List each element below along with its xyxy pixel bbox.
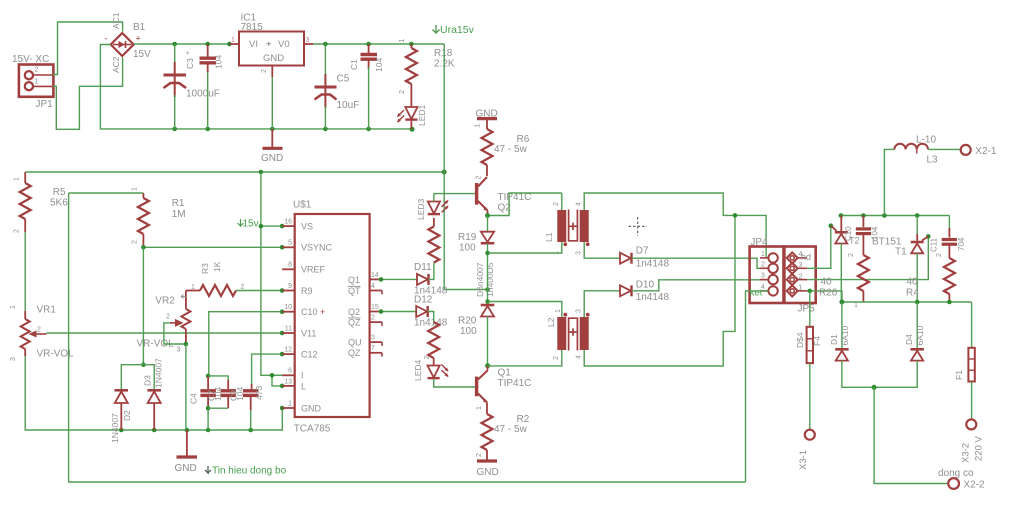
wire Q2 emitter to L1 pin2 xyxy=(488,193,562,216)
svg-text:473: 473 xyxy=(254,386,264,400)
ground symbol below IC1 xyxy=(261,129,283,164)
svg-text:1: 1 xyxy=(231,37,235,44)
svg-text:4: 4 xyxy=(576,355,583,359)
mini rail top y215.5 xyxy=(841,215,950,217)
svg-text:1: 1 xyxy=(10,305,17,309)
svg-text:1n400D5: 1n400D5 xyxy=(485,262,495,297)
pin 7 QZ xyxy=(348,345,382,358)
svg-text:1: 1 xyxy=(35,79,39,86)
wire VR2 bottom to gnd rail xyxy=(185,344,187,430)
svg-text:3: 3 xyxy=(799,262,803,269)
svg-text:JP5: JP5 xyxy=(798,304,816,315)
transistor Q1 TIP41C xyxy=(476,366,531,410)
svg-text:2: 2 xyxy=(132,240,139,244)
svg-text:F4: F4 xyxy=(812,336,822,346)
svg-text:1: 1 xyxy=(288,400,292,407)
snubber resistor R26 xyxy=(819,253,869,302)
svg-text:Ura15v: Ura15v xyxy=(440,24,475,36)
svg-text:hd: hd xyxy=(801,252,811,262)
wire to fuse F4 xyxy=(809,291,811,327)
svg-text:JP4: JP4 xyxy=(750,237,768,248)
diode D12 1n4148 xyxy=(414,295,448,329)
wire R3 to pin9 R9 xyxy=(236,290,282,292)
svg-text:100: 100 xyxy=(460,326,477,337)
svg-text:QT: QT xyxy=(348,286,361,296)
wire D5 to L1 pin1 junction xyxy=(487,244,489,290)
node dots 0V rail xyxy=(172,127,177,132)
IC U$1 TCA785 body xyxy=(293,200,370,435)
svg-text:VR1: VR1 xyxy=(37,305,57,316)
LED1 xyxy=(397,84,427,129)
pin 12 C12 xyxy=(282,347,317,360)
svg-text:QU: QU xyxy=(348,338,362,348)
wire +15v vertical to TCA pin16 and I/L pins xyxy=(261,172,282,375)
svg-text:15V- XC: 15V- XC xyxy=(12,54,49,65)
diode D7 1n4148 xyxy=(620,246,670,270)
wire rail right to F1 xyxy=(971,302,973,348)
LED4 xyxy=(413,356,449,382)
svg-text:L-10: L-10 xyxy=(916,135,936,146)
svg-text:1N4007: 1N4007 xyxy=(154,358,164,388)
svg-text:D1: D1 xyxy=(829,334,839,345)
svg-text:2: 2 xyxy=(261,69,268,73)
svg-text:QZ: QZ xyxy=(348,348,361,358)
wire LED3 to Q2 base xyxy=(434,194,476,202)
wire rail up to L3 xyxy=(884,149,894,215)
wire VR1 bottom to gnd rail xyxy=(25,356,282,430)
svg-text:C4: C4 xyxy=(189,393,199,404)
svg-text:1n4148: 1n4148 xyxy=(636,292,670,303)
wire R1 bottom to VSYNC pin5 xyxy=(143,246,282,248)
svg-text:15v: 15v xyxy=(243,219,259,230)
svg-text:1n4148: 1n4148 xyxy=(636,259,670,270)
wire L1 pin1 to D5-D6 node xyxy=(488,242,562,253)
svg-text:12: 12 xyxy=(284,347,292,354)
svg-text:dong co: dong co xyxy=(938,468,974,479)
svg-text:LED3: LED3 xyxy=(416,198,426,220)
pin 3 QU xyxy=(348,335,382,348)
svg-text:1: 1 xyxy=(132,187,139,191)
svg-text:C12: C12 xyxy=(301,350,318,360)
wire rail down to D1 xyxy=(841,302,843,348)
wire L1 pin2 riser xyxy=(561,193,563,210)
svg-text:1M: 1M xyxy=(172,209,186,220)
resistor above LED4 xyxy=(428,316,477,366)
svg-text:6A10: 6A10 xyxy=(840,325,850,345)
svg-text:1: 1 xyxy=(399,39,406,43)
svg-text:104: 104 xyxy=(235,387,245,401)
wire regulator GND down xyxy=(271,77,273,129)
svg-text:AC2: AC2 xyxy=(111,56,121,73)
pin 11 V11 xyxy=(282,325,316,338)
wire to D6 and L2 pin1 junction xyxy=(487,290,489,304)
wire L2 pin2 to Q1 collector node xyxy=(488,350,562,366)
ground symbol above R6 xyxy=(475,109,498,130)
svg-text:3: 3 xyxy=(576,251,583,255)
svg-text:R19: R19 xyxy=(458,232,477,243)
wire VR1 wiper to pin11 V11 xyxy=(47,332,283,334)
wire Q2 emitter down to D5 xyxy=(487,216,489,232)
transformer L2 xyxy=(546,309,590,360)
svg-text:14: 14 xyxy=(371,272,379,279)
svg-text:1N4007: 1N4007 xyxy=(110,413,120,443)
svg-text:R9: R9 xyxy=(301,286,313,296)
svg-text:VREF: VREF xyxy=(301,265,326,275)
svg-text:X2-1: X2-1 xyxy=(975,146,997,157)
svg-text:2: 2 xyxy=(476,176,483,180)
svg-text:11: 11 xyxy=(285,325,292,332)
wire L2 pin3 to D10 xyxy=(584,291,620,317)
svg-text:R26: R26 xyxy=(819,288,838,299)
pin 13 L xyxy=(282,378,306,391)
svg-text:D3: D3 xyxy=(143,375,153,386)
pin 16 VS xyxy=(282,219,313,232)
svg-text:D10: D10 xyxy=(636,280,655,291)
pin 5 VSYNC xyxy=(282,240,332,253)
wire VR2 wiper loop xyxy=(164,323,186,344)
svg-text:GND: GND xyxy=(263,53,284,64)
svg-text:15: 15 xyxy=(371,304,379,311)
svg-text:GND: GND xyxy=(175,463,197,474)
resistor R1 1M xyxy=(132,187,186,247)
fuse F4 xyxy=(795,327,822,363)
wire rail down to D4 xyxy=(916,302,918,348)
svg-text:Q2: Q2 xyxy=(348,307,360,317)
wire L3 to X2-1 xyxy=(928,148,961,150)
svg-text:2: 2 xyxy=(553,356,560,360)
wire L2 pin1 to node xyxy=(488,302,562,318)
svg-text:6A10: 6A10 xyxy=(915,325,925,345)
diode D10 1n4148 xyxy=(620,280,670,303)
wire F4 to X3-1 xyxy=(809,363,811,429)
wire pin14 to D11 xyxy=(382,278,417,280)
svg-text:2: 2 xyxy=(166,314,170,321)
label Tin hieu dong bo xyxy=(205,466,287,477)
svg-text:T1: T1 xyxy=(895,247,907,258)
svg-text:Q1: Q1 xyxy=(498,368,512,379)
svg-text:+: + xyxy=(136,34,141,44)
svg-text:TIP41C: TIP41C xyxy=(498,378,532,389)
svg-text:1: 1 xyxy=(14,177,21,181)
svg-text:1: 1 xyxy=(476,406,483,410)
svg-text:15V: 15V xyxy=(133,49,151,60)
snubber cap C10 104 xyxy=(844,216,880,256)
svg-text:U$1: U$1 xyxy=(293,200,312,211)
thyristor T1a BT151 xyxy=(831,216,907,303)
svg-text:L1: L1 xyxy=(544,232,554,242)
wire D11 up through R19 LED3 xyxy=(429,263,434,280)
svg-text:2: 2 xyxy=(399,90,406,94)
svg-text:X2-2: X2-2 xyxy=(964,480,986,491)
svg-text:2: 2 xyxy=(424,356,431,360)
wire D1 to motor node xyxy=(842,361,874,388)
svg-text:X3-1: X3-1 xyxy=(798,450,809,470)
connector JP1 xyxy=(12,54,53,110)
resistor below LED3 xyxy=(428,218,476,263)
svg-text:3: 3 xyxy=(306,37,310,44)
wire motor node down to X2-2 xyxy=(874,387,948,483)
trimmer VR2 xyxy=(137,291,191,354)
svg-text:47 - 5w: 47 - 5w xyxy=(494,424,528,435)
wire long left vertical to bottom xyxy=(69,193,746,482)
svg-text:3: 3 xyxy=(371,335,375,342)
inductor L3 L-10 xyxy=(894,135,938,166)
transistor Q2 TIP41C xyxy=(476,176,532,216)
fuse F1 xyxy=(954,348,975,382)
node dots gnd rail xyxy=(119,428,124,433)
svg-text:104: 104 xyxy=(214,55,224,69)
svg-text:2: 2 xyxy=(14,229,21,233)
svg-text:1: 1 xyxy=(761,251,765,258)
resistor R3 1K horizontal xyxy=(186,261,245,296)
svg-text:13: 13 xyxy=(284,378,292,385)
connector JP4 xyxy=(750,237,784,303)
svg-text:2: 2 xyxy=(848,253,855,257)
svg-text:3: 3 xyxy=(177,347,181,354)
svg-text:C3: C3 xyxy=(185,58,195,69)
svg-text:ket: ket xyxy=(750,288,763,299)
svg-text:GND: GND xyxy=(477,467,499,478)
svg-text:7: 7 xyxy=(371,345,375,352)
svg-text:704: 704 xyxy=(957,237,966,251)
svg-text:3: 3 xyxy=(576,309,583,313)
svg-text:1n4148: 1n4148 xyxy=(414,318,448,329)
wire Q1 emitter to R2 xyxy=(486,403,488,415)
wire D12 down through R20 resistor xyxy=(428,312,434,323)
svg-text:D12: D12 xyxy=(414,295,433,306)
svg-text:L: L xyxy=(301,381,306,391)
svg-text:R3: R3 xyxy=(200,263,210,274)
svg-text:+: + xyxy=(266,39,272,50)
wire L1 pin4 to bus xyxy=(584,193,766,258)
svg-text:+: + xyxy=(185,51,192,55)
svg-text:104: 104 xyxy=(213,387,223,401)
diode D6 1n4007 xyxy=(481,305,495,317)
svg-text:40: 40 xyxy=(821,277,833,288)
wire top +rail from bridge plus xyxy=(134,43,230,45)
capacitor C7 104 xyxy=(207,376,237,408)
wire 15v to pin16 xyxy=(261,225,282,227)
capacitor C4 xyxy=(189,376,216,430)
wire pin12 C12 down to C9 xyxy=(252,354,283,384)
svg-text:1: 1 xyxy=(799,285,803,292)
resistor R2 47-5w xyxy=(476,414,530,460)
svg-text:1: 1 xyxy=(475,124,482,128)
svg-text:D6n4007: D6n4007 xyxy=(475,262,485,297)
wire JP4 pin4 down to bottom xyxy=(746,291,769,482)
svg-text:2: 2 xyxy=(476,453,483,457)
svg-text:8: 8 xyxy=(288,262,292,269)
svg-text:1000uF: 1000uF xyxy=(186,89,220,100)
svg-text:R5: R5 xyxy=(53,187,66,198)
svg-text:R4: R4 xyxy=(906,288,919,299)
svg-text:2: 2 xyxy=(371,315,375,322)
svg-text:1: 1 xyxy=(854,302,858,309)
svg-text:4: 4 xyxy=(371,283,375,290)
svg-text:GND: GND xyxy=(301,403,322,413)
svg-text:2: 2 xyxy=(35,67,39,74)
svg-text:I: I xyxy=(301,371,304,381)
wire D4 to motor node xyxy=(874,361,917,388)
svg-text:6: 6 xyxy=(288,368,292,375)
svg-text:X3-2: X3-2 xyxy=(961,443,972,463)
wire JP5 pin3 to T1a gate xyxy=(807,226,831,269)
diode D4 6A10 xyxy=(904,325,925,360)
svg-text:-: - xyxy=(105,34,108,44)
svg-text:L3: L3 xyxy=(927,155,939,166)
wire bridge minus to 0V rail xyxy=(100,45,412,129)
svg-text:100: 100 xyxy=(459,243,476,254)
svg-text:104: 104 xyxy=(871,226,880,240)
svg-text:VSYNC: VSYNC xyxy=(301,243,333,253)
svg-text:2: 2 xyxy=(761,262,765,269)
wire R5 to VR1 xyxy=(24,232,26,311)
svg-text:1: 1 xyxy=(191,284,195,291)
svg-text:C11: C11 xyxy=(930,237,939,252)
capacitor C1 104 xyxy=(349,44,384,129)
svg-text:3: 3 xyxy=(10,357,17,361)
wire to D3 xyxy=(143,365,154,389)
svg-text:L2: L2 xyxy=(546,317,556,327)
svg-text:R20: R20 xyxy=(458,316,477,327)
node on +15v rail xyxy=(259,170,264,175)
wire JP1 pin2 to AC1 xyxy=(53,22,123,75)
pin 2 QZb xyxy=(348,315,382,328)
supply label 15v xyxy=(238,219,259,230)
wire R1 top xyxy=(69,192,144,194)
wire LED4 to Q1 base xyxy=(434,379,476,387)
capacitor C9 473 xyxy=(229,384,265,430)
terminal X2-2 dong co xyxy=(938,468,985,491)
svg-text:47 - 5w: 47 - 5w xyxy=(494,144,528,155)
thyristor T1b BT151 xyxy=(911,216,929,303)
svg-text:QZ: QZ xyxy=(348,318,361,328)
pin 6 I xyxy=(282,368,303,381)
svg-text:D$4: D$4 xyxy=(795,332,805,348)
pin 1 GND xyxy=(282,400,321,413)
diode D5 1n4007 xyxy=(475,232,495,297)
svg-text:220 V: 220 V xyxy=(974,436,985,461)
capacitor C2 104 xyxy=(200,44,224,129)
svg-text:2: 2 xyxy=(553,202,560,206)
svg-text:V0: V0 xyxy=(278,39,290,50)
svg-text:4: 4 xyxy=(576,202,583,206)
pin 9 R9 xyxy=(282,283,312,296)
svg-text:C1: C1 xyxy=(349,59,359,70)
svg-text:D11: D11 xyxy=(414,262,432,273)
wire D6 to Q1 collector junction xyxy=(487,317,489,366)
terminal X2-1 xyxy=(961,145,997,157)
wire JP5 pin2 to T1b gate xyxy=(807,236,928,279)
svg-text:2: 2 xyxy=(799,274,803,281)
ground symbol below R2 xyxy=(477,461,499,478)
svg-text:C10: C10 xyxy=(844,226,853,241)
svg-text:LED4: LED4 xyxy=(413,359,423,381)
svg-text:16: 16 xyxy=(284,219,292,226)
svg-text:5: 5 xyxy=(288,240,292,247)
svg-text:R18: R18 xyxy=(434,48,453,59)
terminal X3-1 xyxy=(798,430,815,470)
svg-text:VI: VI xyxy=(249,39,258,50)
node dots top rail xyxy=(172,42,177,47)
snubber cap C11 704 xyxy=(930,216,967,259)
transformer L1 xyxy=(544,202,590,255)
regulator IC1 7815 xyxy=(229,13,313,78)
svg-text:AC1: AC1 xyxy=(111,12,121,29)
resistor R5 5K6 xyxy=(14,172,69,233)
potentiometer VR1 xyxy=(10,305,74,362)
wire +15v tall vertical xyxy=(444,44,487,290)
diode D11 1n4148 xyxy=(414,262,448,297)
svg-text:LED1: LED1 xyxy=(417,104,427,126)
svg-text:5K6: 5K6 xyxy=(50,198,68,209)
svg-text:2: 2 xyxy=(37,327,41,334)
svg-text:7815: 7815 xyxy=(241,22,264,33)
svg-text:3: 3 xyxy=(761,273,765,280)
diode D2 1N4007 xyxy=(110,390,132,443)
svg-text:1: 1 xyxy=(555,309,562,313)
svg-text:Q1: Q1 xyxy=(348,275,360,285)
svg-text:D4: D4 xyxy=(904,334,914,345)
svg-text:9: 9 xyxy=(288,283,292,290)
LED3 xyxy=(416,198,449,220)
wire L1 pin3 to D7 xyxy=(584,242,620,258)
resistor R6 47-5w xyxy=(482,129,530,176)
capacitor C3 1000uF xyxy=(164,44,220,129)
pin 14 Q1 xyxy=(348,272,382,285)
diode D1 6A10 xyxy=(829,325,850,360)
wire D7 to JP4 pin2 xyxy=(632,258,769,268)
wire JP5 pin1 net xyxy=(807,291,842,302)
svg-text:F1: F1 xyxy=(954,370,964,380)
svg-text:10: 10 xyxy=(284,304,292,311)
wire pin15 to D12 xyxy=(382,311,416,313)
pin 4 QT xyxy=(348,283,382,296)
svg-text:C5: C5 xyxy=(337,74,350,85)
svg-text:1K: 1K xyxy=(212,261,222,272)
pin 8 VREF xyxy=(282,262,325,275)
svg-text:TCA785: TCA785 xyxy=(294,424,331,435)
supply label Ura15v xyxy=(433,24,475,36)
wire F1 to X3-2 xyxy=(971,382,973,420)
svg-text:VR2: VR2 xyxy=(155,296,175,307)
wire D10 to JP4 pin3 xyxy=(632,280,769,291)
svg-text:C10 +: C10 + xyxy=(301,307,325,317)
resistor R18 2.2K xyxy=(399,39,455,95)
capacitor C5 10uF xyxy=(315,44,360,129)
svg-text:104: 104 xyxy=(374,58,384,72)
terminal X3-2 220V xyxy=(961,419,985,463)
svg-text:R1: R1 xyxy=(172,198,185,209)
connector JP5 xyxy=(784,247,815,315)
svg-text:40: 40 xyxy=(907,277,919,288)
svg-text:GND: GND xyxy=(261,153,283,164)
svg-text:VS: VS xyxy=(301,222,313,232)
wire top +rail right of regulator xyxy=(313,43,444,45)
lower rail y302 xyxy=(842,301,972,303)
origin crosshair xyxy=(629,217,648,236)
svg-text:2: 2 xyxy=(936,253,943,257)
wire R1 junction down to D2 D3 xyxy=(142,247,144,364)
ground symbol mid xyxy=(175,430,198,474)
pin 10 C10 xyxy=(282,304,325,317)
svg-text:JP1: JP1 xyxy=(36,99,54,110)
wire JP1 pin1 to AC2 xyxy=(53,58,123,130)
svg-text:10uF: 10uF xyxy=(337,100,360,111)
wire to D2 xyxy=(121,365,143,389)
diode D3 1N4007 xyxy=(143,358,164,430)
bridge rectifier B1 xyxy=(105,12,152,73)
